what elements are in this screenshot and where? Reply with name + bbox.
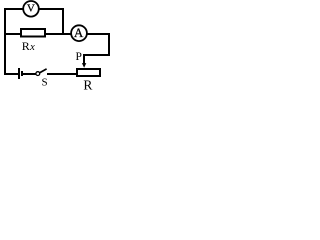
battery long plate [18, 68, 20, 79]
svg-text:V: V [27, 3, 35, 15]
wire top left segment [4, 8, 24, 10]
wire right vertical [108, 33, 110, 56]
wire bottom left segment [4, 73, 18, 75]
rheostat wiper arrowhead [82, 63, 86, 68]
wire bottom switch-to-rheostat segment [47, 73, 77, 75]
wire voltmeter branch vertical [62, 8, 64, 35]
wire middle center segment [45, 33, 72, 35]
svg-text:R: R [83, 77, 92, 92]
resistor Rx box [21, 29, 45, 37]
switch S blade [40, 69, 47, 73]
wire lower right horizontal [83, 54, 110, 56]
battery short plate [21, 71, 23, 76]
svg-text:P: P [76, 51, 82, 63]
rheostat R box [77, 69, 100, 76]
wire middle right segment [87, 33, 110, 35]
wire middle left segment [4, 33, 21, 35]
wire bottom battery-to-switch segment [23, 73, 36, 75]
svg-text:A: A [74, 25, 84, 40]
svg-text:S: S [42, 77, 48, 89]
svg-text:Rx: Rx [22, 39, 35, 53]
switch S pivot circle [36, 72, 40, 76]
wire top right segment [39, 8, 64, 10]
rheostat wiper arrow stem [83, 54, 85, 64]
wire left vertical [4, 8, 6, 75]
ammeter A circle [71, 25, 87, 41]
voltmeter V circle [23, 1, 39, 17]
